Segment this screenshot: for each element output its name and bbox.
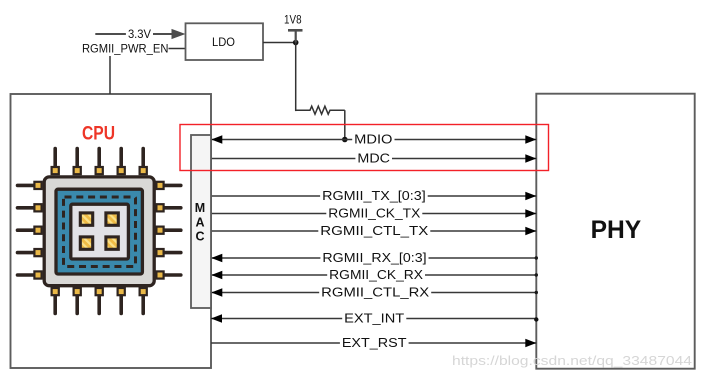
svg-text:RGMII_RX_[0:3]: RGMII_RX_[0:3]	[322, 250, 426, 265]
net label EXT_RST	[340, 335, 409, 350]
MAC label	[195, 201, 205, 244]
net label MDC	[355, 151, 392, 166]
wire RGMII_TX_[0:3]	[211, 192, 536, 201]
net label RGMII_RX_[0:3]	[320, 250, 428, 265]
chip pins right	[163, 185, 181, 275]
junction dot on MDIO	[342, 137, 348, 143]
MAC interface box	[191, 135, 211, 308]
PHY block box	[536, 94, 694, 369]
net label RGMII_CTL_TX	[318, 223, 430, 238]
svg-text:A: A	[195, 215, 204, 229]
wire RGMII_CTL_RX	[211, 288, 536, 297]
regulator LDO	[186, 23, 264, 60]
chip pins top	[55, 149, 143, 168]
net label RGMII_CK_RX	[327, 267, 425, 282]
wire RGMII_RX_[0:3]	[211, 254, 536, 263]
svg-text:MDIO: MDIO	[354, 132, 392, 147]
svg-text:3.3V: 3.3V	[128, 29, 151, 41]
wire EXT_INT	[211, 314, 539, 323]
wire 1V8 down to resistor	[295, 43, 297, 112]
wire resistor down to MDIO	[344, 110, 346, 139]
junction dot LDO output / 1V8	[293, 40, 299, 46]
svg-text:1V8: 1V8	[284, 14, 302, 26]
wire 3.3V	[95, 33, 174, 35]
net label RGMII_TX_[0:3]	[320, 188, 428, 203]
chip pins bottom	[55, 296, 143, 314]
svg-text:EXT_RST: EXT_RST	[342, 335, 407, 350]
net label 3.3V	[126, 27, 153, 41]
svg-text:M: M	[195, 201, 205, 215]
svg-text:RGMII_CK_TX: RGMII_CK_TX	[328, 206, 420, 221]
svg-text:https://blog.csdn.net/qq_33487: https://blog.csdn.net/qq_33487044	[452, 354, 692, 368]
CPU chip icon	[18, 149, 181, 314]
chip core cells gold	[80, 213, 118, 249]
net label EXT_INT	[342, 311, 406, 326]
svg-text:EXT_INT: EXT_INT	[344, 311, 404, 326]
resistor R1	[296, 106, 345, 114]
CPU block box	[11, 94, 212, 368]
highlight red rectangle (MDIO/MDC group)	[180, 125, 549, 171]
chip body	[44, 177, 154, 286]
power symbol 1V8	[284, 14, 302, 42]
svg-text:C: C	[195, 230, 204, 244]
net label MDIO	[352, 132, 394, 147]
junction dots RX lines at PHY edge	[535, 256, 538, 294]
wire RGMII_PWR_EN to LDO	[169, 48, 186, 50]
wire RGMII_CK_RX	[211, 271, 536, 280]
wire RGMII_PWR_EN down to CPU	[109, 56, 111, 94]
chip die blue	[56, 189, 142, 274]
chip pins left	[18, 185, 36, 275]
svg-text:CPU: CPU	[82, 124, 115, 145]
net label RGMII_CK_TX	[326, 206, 422, 221]
svg-text:RGMII_PWR_EN: RGMII_PWR_EN	[82, 44, 169, 56]
svg-text:RGMII_CK_RX: RGMII_CK_RX	[329, 267, 423, 282]
net label RGMII_CTL_RX	[319, 285, 431, 300]
wire RGMII_CTL_TX	[211, 227, 536, 236]
chip dashed ring	[64, 197, 136, 267]
wire MDC	[211, 154, 536, 163]
svg-text:LDO: LDO	[212, 37, 235, 49]
svg-text:RGMII_CTL_RX: RGMII_CTL_RX	[321, 285, 429, 300]
wire RGMII_CK_TX	[211, 209, 536, 218]
svg-text:RGMII_CTL_TX: RGMII_CTL_TX	[320, 223, 428, 238]
svg-text:PHY: PHY	[591, 216, 642, 244]
svg-text:MDC: MDC	[357, 151, 390, 166]
arrowhead 3.3V into LDO	[172, 29, 186, 39]
wire EXT_RST	[211, 339, 536, 348]
chip core	[71, 204, 129, 259]
wire MDIO	[211, 135, 536, 144]
wire LDO output	[263, 42, 296, 44]
svg-text:RGMII_TX_[0:3]: RGMII_TX_[0:3]	[322, 188, 426, 203]
